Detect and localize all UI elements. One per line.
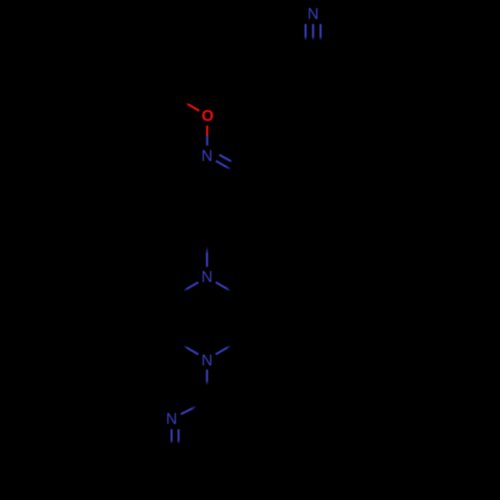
svg-text:N: N	[201, 269, 212, 286]
O-CH3 bond	[186, 103, 200, 111]
svg-text:N: N	[201, 148, 212, 165]
piperazine N1 ring bond right	[216, 282, 232, 291]
C=N oxime double bond offset line	[219, 155, 231, 162]
svg-text:N: N	[201, 353, 212, 370]
pyridine N1=C6 double bond inner line	[178, 429, 180, 444]
C=N oxime double bond main line	[216, 161, 232, 170]
pyridine C2-N1 bond	[181, 405, 198, 414]
pyridine N1=C6 double bond main line	[171, 429, 173, 444]
nitrile triple bond C#N line 3	[320, 24, 322, 42]
piperazine N4 ring bond left	[183, 345, 199, 354]
nitrile triple bond C#N line 2	[312, 24, 314, 42]
svg-text:N: N	[307, 6, 318, 23]
CH2-N bond into piperazine	[206, 246, 208, 267]
N4 - pyridine C2 bond	[206, 370, 208, 386]
svg-text:O: O	[202, 108, 214, 125]
piperazine N1 ring bond left	[183, 282, 199, 291]
svg-text:N: N	[166, 411, 177, 428]
piperazine N4 ring bond right	[216, 345, 232, 354]
O-N bond	[206, 126, 208, 146]
nitrile triple bond C#N line 1	[305, 24, 307, 42]
